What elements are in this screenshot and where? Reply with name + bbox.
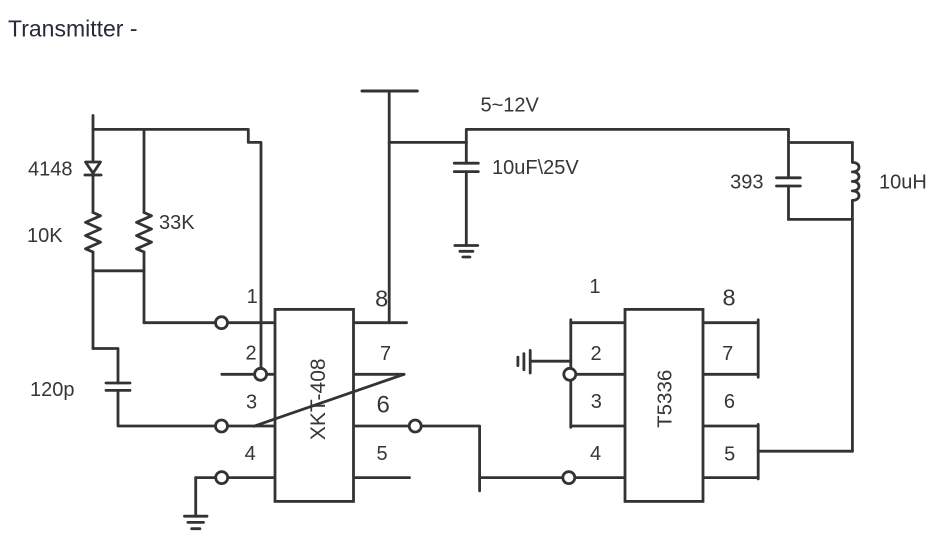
node pin2 terminal XKT — [255, 368, 267, 380]
node pin1 terminal XKT — [216, 317, 228, 329]
op-amp U1 XKT-408 box — [275, 309, 354, 501]
capacitor C2 10uF plates — [454, 163, 478, 171]
wire power vertical to pin8 — [388, 91, 391, 323]
capacitor C3 393 plates — [777, 178, 801, 186]
node pin4 terminal XKT — [216, 472, 228, 484]
svg-text:10uH: 10uH — [879, 171, 927, 193]
wire tank top bar — [789, 141, 853, 144]
svg-text:1: 1 — [589, 276, 600, 298]
svg-text:10K: 10K — [27, 225, 63, 247]
resistor R1 10K zigzag — [86, 213, 101, 253]
wire t5336 pin2 circle to IC — [576, 373, 625, 376]
ground (sideways, at T5336 pin2) — [518, 350, 530, 373]
svg-text:Transmitter -: Transmitter - — [8, 16, 138, 42]
svg-text:1: 1 — [247, 286, 258, 308]
wire pin6 to circle — [354, 425, 410, 428]
wire t5336 pin1 row — [571, 321, 625, 324]
svg-text:10uF\25V: 10uF\25V — [492, 157, 579, 179]
wire pin4 row to circle — [196, 476, 216, 479]
wire top-left rail with step to pin2 vertical — [93, 129, 261, 367]
wire 33K top lead — [143, 129, 146, 212]
svg-text:3: 3 — [246, 391, 257, 413]
svg-text:8: 8 — [375, 286, 388, 312]
wire tank right drop — [851, 219, 854, 451]
wire t5336 to tank — [758, 450, 852, 453]
svg-text:2: 2 — [245, 343, 256, 365]
svg-text:393: 393 — [730, 171, 763, 193]
wire jog to 120p capacitor — [93, 349, 118, 384]
wire rail corner — [466, 129, 788, 142]
wire pin8 stub — [354, 321, 407, 324]
wire pin2 circle to IC — [267, 373, 275, 376]
svg-text:5: 5 — [724, 443, 735, 465]
wire 393 bottom lead — [787, 186, 790, 219]
wire pin6 circle to corner down — [421, 426, 480, 491]
ground (below 10uF cap) — [455, 246, 478, 258]
wire t5336 right bracket pin 5 — [703, 424, 758, 479]
wire tank bottom bar — [789, 218, 853, 221]
wire top-left vertical stub down to diode — [92, 116, 95, 163]
wire xkt pin6 to t5336 pin4 row — [480, 476, 563, 479]
wire diagonal pin3 to pin7 — [254, 374, 404, 426]
pin numbers XKT-408 — [245, 286, 391, 466]
pin numbers T5336 — [589, 276, 735, 465]
diode D1 4148 — [85, 162, 101, 175]
resistor R2 33K zigzag — [137, 213, 152, 253]
wire pin3 circle to IC — [228, 425, 275, 428]
wire 120p bottom lead and pin3 row — [118, 390, 215, 426]
wire t5336 pin3 row — [571, 425, 625, 428]
svg-text:XKT-408: XKT-408 — [307, 358, 330, 440]
svg-text:2: 2 — [590, 343, 601, 365]
wire pin5 stub — [354, 476, 410, 479]
wire t5336 right bracket pins 8-7 — [703, 320, 758, 378]
wire 10K bottom to joining bar — [92, 252, 95, 349]
svg-text:5: 5 — [376, 443, 387, 465]
svg-text:4: 4 — [590, 443, 601, 465]
wire pin1 circle to IC — [228, 321, 275, 324]
wire pin7 stub — [354, 373, 405, 376]
inductor L1 10uH — [852, 143, 859, 220]
capacitor C1 120p plates — [106, 383, 130, 390]
svg-text:6: 6 — [724, 391, 735, 413]
wire pin4 corner down to ground — [194, 478, 197, 517]
wire 393 top lead — [787, 129, 790, 176]
wire 10uF top lead — [465, 142, 468, 163]
wire power branch to rail corner — [389, 141, 466, 144]
svg-text:7: 7 — [722, 343, 733, 365]
node pin3 terminal XKT — [216, 420, 228, 432]
svg-text:8: 8 — [722, 284, 735, 310]
svg-text:4148: 4148 — [28, 159, 73, 181]
op-amp U2 T5336 box — [625, 309, 703, 501]
wire pin4 circle to IC — [229, 476, 275, 479]
wire t5336 left bracket — [569, 320, 572, 427]
node pin2 terminal T5336 — [564, 368, 576, 380]
svg-text:T5336: T5336 — [654, 370, 677, 428]
svg-text:3: 3 — [591, 391, 602, 413]
svg-text:6: 6 — [377, 391, 390, 418]
wire 10uF bottom lead to ground — [465, 172, 468, 246]
svg-text:120p: 120p — [30, 379, 75, 401]
wire pin2 stub — [222, 373, 254, 376]
ground (below pin4 of XKT-408) — [185, 516, 208, 529]
svg-text:33K: 33K — [159, 212, 195, 234]
svg-text:7: 7 — [380, 343, 391, 365]
svg-text:5~12V: 5~12V — [481, 95, 540, 117]
svg-text:4: 4 — [245, 443, 256, 465]
wire diode to 10K — [92, 175, 95, 213]
power bar 5~12V — [362, 90, 417, 93]
wire t5336 pin4 circle to IC — [575, 476, 625, 479]
node pin6 terminal XKT — [409, 420, 421, 432]
wire 33K bottom down to pin1 row — [143, 252, 146, 323]
node pin4 terminal T5336 — [563, 472, 575, 484]
wire t5336 ground lead — [532, 360, 571, 363]
wire pin1 row from 33K branch to circle — [144, 321, 215, 324]
wire joining bar between resistors — [93, 269, 144, 272]
